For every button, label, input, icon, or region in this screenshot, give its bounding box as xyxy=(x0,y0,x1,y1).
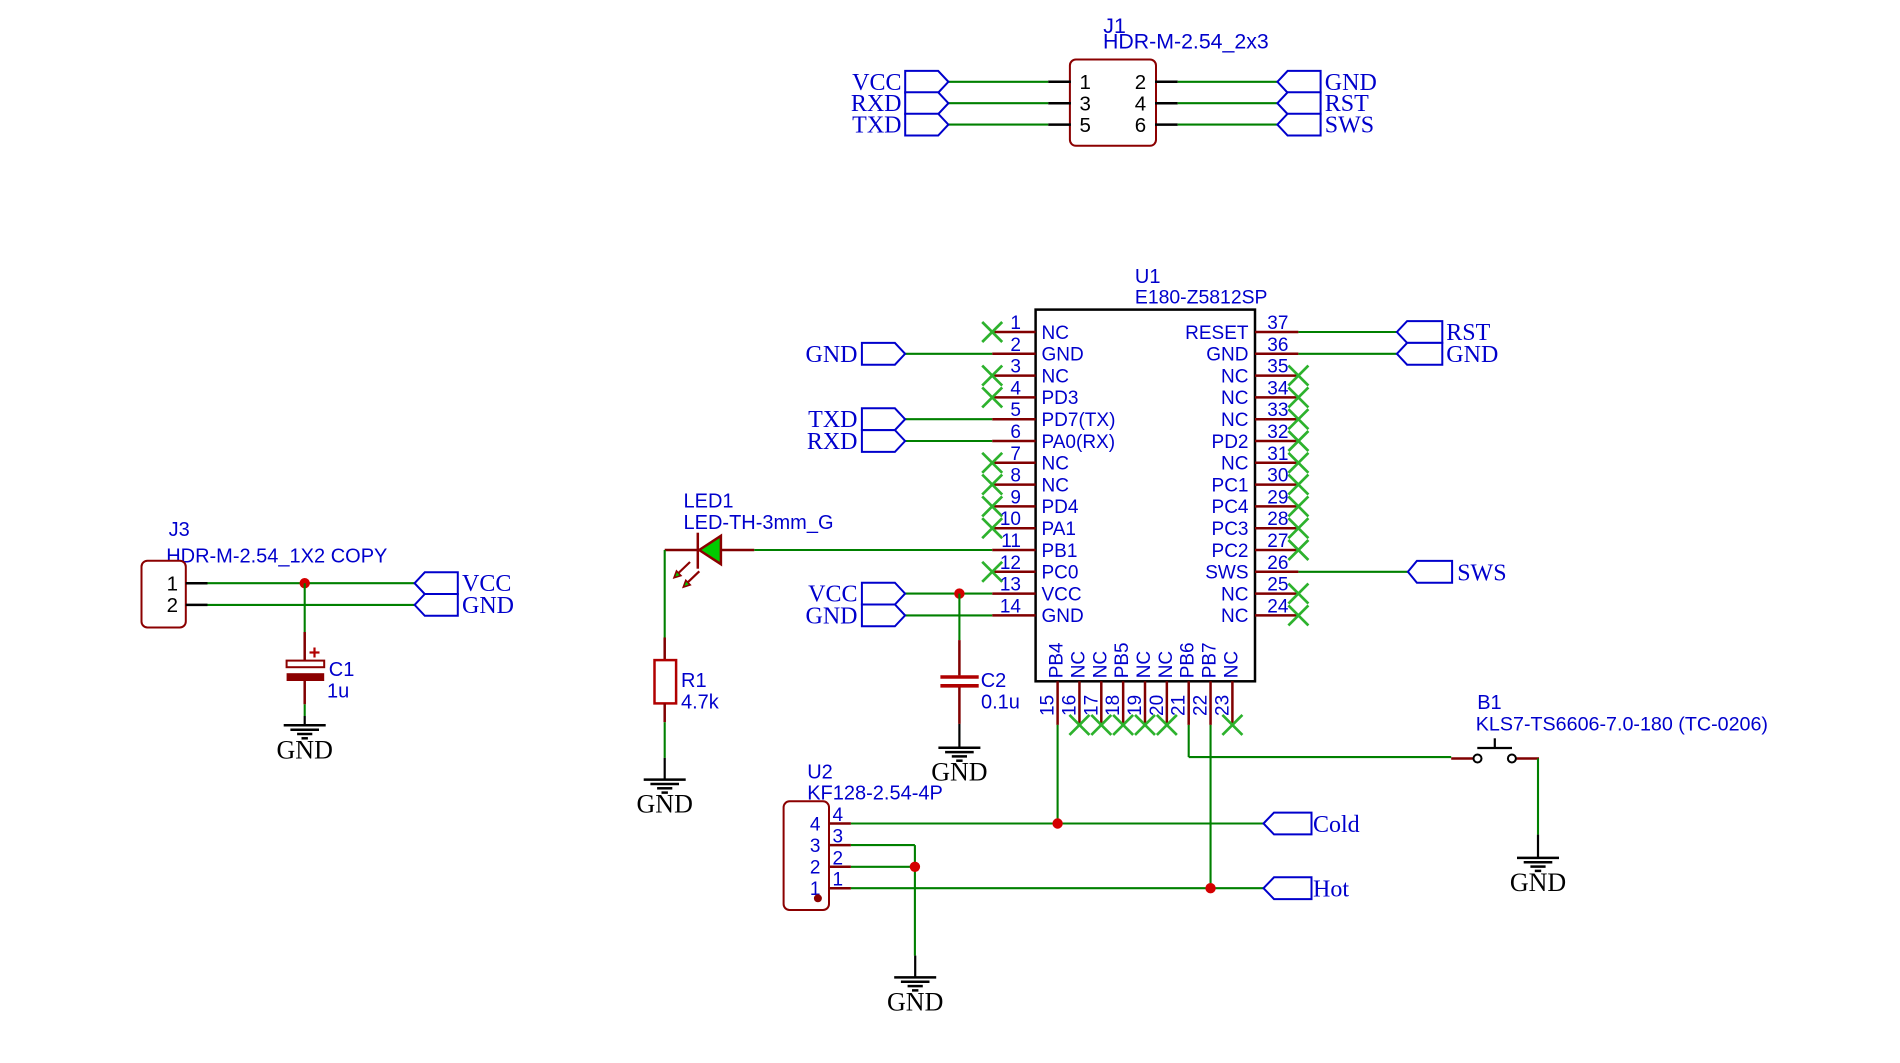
ground xyxy=(931,724,987,787)
ground xyxy=(1510,835,1566,897)
svg-text:U1: U1 xyxy=(1135,266,1161,288)
svg-text:PD2: PD2 xyxy=(1212,432,1249,453)
net flag RST xyxy=(1277,91,1369,117)
no-connect X on U1 pin 35 xyxy=(1288,366,1308,386)
wire U1 pin36 to GND flag xyxy=(1298,353,1397,355)
J1 pin 2 xyxy=(1135,71,1178,94)
net flag TXD xyxy=(808,407,905,433)
connector J3 body xyxy=(142,561,186,628)
U1 pin 34 NC xyxy=(1221,378,1298,409)
svg-text:NC: NC xyxy=(1221,584,1248,605)
J3 pin 2 xyxy=(167,594,208,617)
J1 pin 5 xyxy=(1048,114,1091,137)
svg-text:PC1: PC1 xyxy=(1212,475,1249,496)
svg-text:NC: NC xyxy=(1042,454,1069,475)
svg-text:NC: NC xyxy=(1090,651,1111,678)
wire U1 pin22 PB7 down to Hot net xyxy=(1210,725,1212,888)
U1 pin 24 NC xyxy=(1221,596,1298,627)
svg-text:23: 23 xyxy=(1212,695,1233,716)
wire RXD flag to U1 pin6 xyxy=(905,440,992,442)
svg-text:21: 21 xyxy=(1169,695,1190,716)
net flag RXD xyxy=(851,91,949,117)
svg-text:24: 24 xyxy=(1267,596,1289,617)
svg-text:NC: NC xyxy=(1221,366,1248,387)
U1 pin 35 NC xyxy=(1221,357,1298,388)
U1 pin 16 NC xyxy=(1059,651,1089,725)
net flag Cold xyxy=(1264,812,1360,838)
svg-text:1: 1 xyxy=(1080,71,1091,94)
svg-text:NC: NC xyxy=(1221,388,1248,409)
svg-text:SWS: SWS xyxy=(1325,113,1374,139)
svg-text:3: 3 xyxy=(1010,357,1021,378)
svg-text:RESET: RESET xyxy=(1185,323,1249,344)
svg-text:20: 20 xyxy=(1147,695,1168,716)
svg-text:NC: NC xyxy=(1221,651,1242,678)
J1 pin 1 xyxy=(1048,71,1091,94)
wire R1 to ground xyxy=(664,722,666,758)
svg-text:PB4: PB4 xyxy=(1047,642,1068,678)
wire TXD to J1 xyxy=(948,124,1048,126)
U1 pin 19 NC xyxy=(1125,651,1155,725)
wire U2 pin3 to ground net xyxy=(851,845,915,956)
svg-text:2: 2 xyxy=(810,858,821,879)
svg-text:34: 34 xyxy=(1267,378,1289,399)
svg-text:GND: GND xyxy=(806,603,858,629)
svg-text:1: 1 xyxy=(167,573,178,596)
no-connect X on U1 pin 33 xyxy=(1288,409,1308,429)
no-connect X on U1 pin 28 xyxy=(1288,518,1308,538)
svg-text:GND: GND xyxy=(1042,345,1084,366)
U1 pin 14 GND xyxy=(992,596,1084,627)
no-connect X on U1 pin 7 xyxy=(982,453,1002,473)
J1 pin 4 xyxy=(1135,93,1178,116)
wire J1 to RST xyxy=(1178,102,1278,104)
no-connect X on U1 pin 1 xyxy=(982,322,1002,342)
net flag RST xyxy=(1397,320,1491,346)
svg-text:35: 35 xyxy=(1267,357,1288,378)
no-connect X on U1 pin 19 xyxy=(1135,715,1155,735)
svg-text:29: 29 xyxy=(1267,487,1288,508)
svg-text:2: 2 xyxy=(1135,71,1146,94)
svg-text:GND: GND xyxy=(637,790,693,819)
U2 pin 1 xyxy=(810,870,851,900)
svg-text:E180-Z5812SP: E180-Z5812SP xyxy=(1135,287,1268,309)
svg-text:26: 26 xyxy=(1267,553,1288,574)
ground xyxy=(637,758,693,819)
U1 pin 29 PC4 xyxy=(1212,487,1299,518)
U1 pin 3 NC xyxy=(992,357,1069,388)
U1 pin 2 GND xyxy=(992,335,1084,366)
svg-text:GND: GND xyxy=(1042,606,1084,627)
svg-text:PC3: PC3 xyxy=(1212,519,1249,540)
capacitor C2 xyxy=(940,640,978,724)
svg-text:22: 22 xyxy=(1191,695,1212,716)
svg-text:KLS7-TS6606-7.0-180 (TC-0206): KLS7-TS6606-7.0-180 (TC-0206) xyxy=(1476,713,1768,735)
svg-text:GND: GND xyxy=(277,735,333,764)
U1 pin 20 NC xyxy=(1147,651,1177,725)
U2 pin 3 xyxy=(810,827,851,857)
svg-text:2: 2 xyxy=(1010,335,1021,356)
U1 pin 8 NC xyxy=(992,466,1069,497)
net flag VCC xyxy=(808,582,905,608)
svg-text:GND: GND xyxy=(1206,345,1248,366)
svg-text:2: 2 xyxy=(833,848,844,869)
wire B1 to ground xyxy=(1537,759,1539,835)
C2 value labels xyxy=(981,670,1020,714)
svg-text:6: 6 xyxy=(1010,422,1021,443)
no-connect X on U1 pin 20 xyxy=(1157,715,1177,735)
svg-text:1: 1 xyxy=(1010,313,1021,334)
svg-text:KF128-2.54-4P: KF128-2.54-4P xyxy=(807,783,943,805)
svg-text:27: 27 xyxy=(1267,531,1288,552)
svg-text:RXD: RXD xyxy=(807,429,858,455)
wire RXD to J1 xyxy=(948,102,1048,104)
U2 pin 2 xyxy=(810,848,851,878)
svg-text:LED1: LED1 xyxy=(684,491,734,513)
net flag RXD xyxy=(807,429,905,455)
svg-text:8: 8 xyxy=(1010,466,1021,487)
no-connect X on U1 pin 10 xyxy=(982,518,1002,538)
svg-text:2: 2 xyxy=(167,594,178,617)
svg-text:12: 12 xyxy=(1000,553,1021,574)
U1 pin 18 PB5 xyxy=(1103,642,1133,725)
wire U2 pin1 to Hot xyxy=(851,887,1264,889)
net flag GND xyxy=(806,603,906,629)
svg-text:25: 25 xyxy=(1267,575,1288,596)
U1 pin 22 PB7 xyxy=(1191,642,1221,725)
svg-text:PB7: PB7 xyxy=(1200,642,1221,678)
svg-text:GND: GND xyxy=(1510,868,1566,897)
U1 pin 25 NC xyxy=(1221,575,1298,606)
U1 pin 10 PA1 xyxy=(992,509,1076,540)
wire LED1 anode to U1 pin11 PB1 xyxy=(754,549,992,551)
no-connect X on U1 pin 12 xyxy=(982,562,1002,582)
svg-text:19: 19 xyxy=(1125,695,1146,716)
svg-text:HDR-M-2.54_2x3: HDR-M-2.54_2x3 xyxy=(1103,30,1269,54)
svg-text:TXD: TXD xyxy=(852,113,901,139)
U1 pin 23 NC xyxy=(1212,651,1242,725)
svg-text:5: 5 xyxy=(1010,400,1021,421)
net flag VCC xyxy=(415,571,512,597)
svg-text:4: 4 xyxy=(810,814,821,835)
U1 pin 26 SWS xyxy=(1205,553,1298,584)
wire VCC junction down to C2 xyxy=(958,594,960,641)
U1 pin 4 PD3 xyxy=(992,378,1078,409)
svg-text:4: 4 xyxy=(1010,378,1021,399)
net flag GND xyxy=(806,342,906,368)
svg-text:33: 33 xyxy=(1267,400,1288,421)
U1 pin 37 RESET xyxy=(1185,313,1298,344)
svg-text:NC: NC xyxy=(1042,323,1069,344)
net flag Hot xyxy=(1264,877,1350,903)
no-connect X on U1 pin 27 xyxy=(1288,540,1308,560)
svg-text:GND: GND xyxy=(1446,342,1498,368)
connector J3 reference label xyxy=(166,519,387,567)
svg-text:GND: GND xyxy=(887,987,943,1016)
no-connect X on U1 pin 17 xyxy=(1091,715,1111,735)
svg-text:4: 4 xyxy=(833,805,844,826)
svg-text:5: 5 xyxy=(1080,114,1091,137)
no-connect X on U1 pin 23 xyxy=(1222,715,1242,735)
svg-text:VCC: VCC xyxy=(1042,584,1082,605)
no-connect X on U1 pin 30 xyxy=(1288,475,1308,495)
J1 pin 6 xyxy=(1135,114,1178,137)
svg-text:7: 7 xyxy=(1010,444,1021,465)
svg-text:J3: J3 xyxy=(169,519,190,541)
svg-text:PD3: PD3 xyxy=(1042,388,1079,409)
U1 pin 9 PD4 xyxy=(992,487,1079,518)
U1 pin 36 GND xyxy=(1206,335,1298,366)
IC U1 body xyxy=(1036,310,1255,682)
junction node VCC/C2 xyxy=(954,588,964,598)
R1 value labels xyxy=(681,670,720,714)
svg-text:3: 3 xyxy=(810,836,821,857)
svg-text:1u: 1u xyxy=(327,681,349,703)
button B1 xyxy=(1451,738,1539,762)
svg-text:NC: NC xyxy=(1042,475,1069,496)
svg-text:14: 14 xyxy=(1000,596,1022,617)
svg-text:GND: GND xyxy=(462,593,514,619)
wire U2 pin4 to Cold xyxy=(851,822,1264,824)
no-connect X on U1 pin 25 xyxy=(1288,584,1308,604)
wire LED1 cathode down to R1 xyxy=(664,550,666,638)
net flag SWS xyxy=(1277,113,1374,139)
connector U2 body xyxy=(784,801,829,910)
no-connect X on U1 pin 32 xyxy=(1288,431,1308,451)
svg-text:B1: B1 xyxy=(1477,692,1501,714)
U1 pin 12 PC0 xyxy=(992,553,1078,584)
svg-text:PB5: PB5 xyxy=(1112,642,1133,678)
svg-text:PC4: PC4 xyxy=(1212,497,1249,518)
svg-text:31: 31 xyxy=(1267,444,1288,465)
wire U2 pin2 to ground net xyxy=(851,866,915,868)
wire VCC flag to U1 pin13 xyxy=(905,593,992,595)
U1 pin 33 NC xyxy=(1221,400,1298,431)
wire C1 to ground xyxy=(304,704,306,716)
svg-text:NC: NC xyxy=(1221,410,1248,431)
resistor R1 xyxy=(655,638,677,723)
svg-text:28: 28 xyxy=(1267,509,1288,530)
no-connect X on U1 pin 29 xyxy=(1288,496,1308,516)
svg-text:C2: C2 xyxy=(981,670,1007,692)
wire TXD flag to U1 pin5 xyxy=(905,418,992,420)
svg-text:15: 15 xyxy=(1038,695,1059,716)
svg-text:NC: NC xyxy=(1068,651,1089,678)
net flag GND xyxy=(1397,342,1498,368)
U1 pin 28 PC3 xyxy=(1212,509,1299,540)
U1 pin 5 PD7(TX) xyxy=(992,400,1115,431)
svg-text:PC2: PC2 xyxy=(1212,541,1249,562)
svg-text:PA0(RX): PA0(RX) xyxy=(1042,432,1116,453)
ground xyxy=(277,716,333,764)
U2 pin 4 xyxy=(810,805,851,835)
svg-text:R1: R1 xyxy=(681,670,707,692)
svg-text:NC: NC xyxy=(1134,651,1155,678)
svg-text:U2: U2 xyxy=(807,762,833,784)
U1 pin 15 PB4 xyxy=(1038,642,1068,725)
button B1 reference label xyxy=(1476,692,1768,736)
svg-text:4.7k: 4.7k xyxy=(681,692,720,714)
net flag SWS xyxy=(1408,560,1507,586)
svg-text:NC: NC xyxy=(1156,651,1177,678)
svg-text:GND: GND xyxy=(806,342,858,368)
wire U1 pin37 RESET to RST xyxy=(1298,331,1397,333)
U1 pin 21 PB6 xyxy=(1169,642,1199,725)
no-connect X on U1 pin 18 xyxy=(1113,715,1133,735)
svg-text:10: 10 xyxy=(1000,509,1021,530)
svg-text:0.1u: 0.1u xyxy=(981,692,1020,714)
U1 pin 7 NC xyxy=(992,444,1069,475)
no-connect X on U1 pin 4 xyxy=(982,387,1002,407)
J3 pin 1 xyxy=(167,573,208,596)
junction node PB7/Hot xyxy=(1205,883,1215,893)
svg-text:NC: NC xyxy=(1221,606,1248,627)
svg-text:4: 4 xyxy=(1135,93,1146,116)
wire J1 to GND xyxy=(1178,81,1278,83)
wire U1 pin21 PB6 to button B1 xyxy=(1189,725,1452,757)
connector J1 body xyxy=(1070,60,1156,146)
U1 pin 17 NC xyxy=(1081,651,1111,725)
svg-text:NC: NC xyxy=(1042,366,1069,387)
svg-text:11: 11 xyxy=(1001,531,1021,552)
U1 pin 30 PC1 xyxy=(1212,466,1299,497)
no-connect X on U1 pin 31 xyxy=(1288,453,1308,473)
svg-text:36: 36 xyxy=(1267,335,1288,356)
svg-text:6: 6 xyxy=(1135,114,1146,137)
svg-text:LED-TH-3mm_G: LED-TH-3mm_G xyxy=(684,512,834,534)
svg-text:37: 37 xyxy=(1267,313,1288,334)
wire GND flag to U1 pin14 xyxy=(905,614,992,616)
svg-text:PB6: PB6 xyxy=(1178,642,1199,678)
svg-text:HDR-M-2.54_1X2 COPY: HDR-M-2.54_1X2 COPY xyxy=(166,545,387,567)
net flag GND xyxy=(1277,70,1376,96)
wire VCC to J1 xyxy=(948,81,1048,83)
wire J3 pin1 to VCC xyxy=(208,582,415,584)
svg-text:9: 9 xyxy=(1010,487,1021,508)
wire GND flag to U1 pin2 xyxy=(905,353,992,355)
junction node U2 pin2/pin3 xyxy=(910,862,920,872)
LED1 emission arrows xyxy=(674,562,699,587)
U1 pin 13 VCC xyxy=(992,575,1081,606)
U1 pin 27 PC2 xyxy=(1212,531,1299,562)
svg-text:3: 3 xyxy=(833,827,844,848)
svg-text:13: 13 xyxy=(1000,575,1021,596)
svg-text:C1: C1 xyxy=(329,659,355,681)
svg-text:PB1: PB1 xyxy=(1042,541,1078,562)
wire junction to C1 xyxy=(304,583,306,632)
U1 pin 1 NC xyxy=(992,313,1069,344)
svg-text:PA1: PA1 xyxy=(1042,519,1077,540)
U1 pin 31 NC xyxy=(1221,444,1298,475)
capacitor C1 xyxy=(287,632,325,704)
svg-text:1: 1 xyxy=(833,870,844,891)
svg-text:PD7(TX): PD7(TX) xyxy=(1042,410,1116,431)
svg-text:PD4: PD4 xyxy=(1042,497,1079,518)
no-connect X on U1 pin 3 xyxy=(982,366,1002,386)
net flag VCC xyxy=(852,70,948,96)
IC U1 reference label xyxy=(1135,266,1268,309)
wire J1 to SWS xyxy=(1178,124,1278,126)
J1 pin 3 xyxy=(1048,93,1091,116)
wire U1 pin26 to SWS flag xyxy=(1298,571,1408,573)
connector J1 reference label xyxy=(1103,14,1269,53)
svg-text:Cold: Cold xyxy=(1313,812,1360,838)
svg-text:PC0: PC0 xyxy=(1042,563,1079,584)
no-connect X on U1 pin 24 xyxy=(1288,605,1308,625)
svg-text:NC: NC xyxy=(1221,454,1248,475)
net flag GND xyxy=(415,593,514,619)
C1 value labels xyxy=(327,659,354,703)
svg-text:16: 16 xyxy=(1059,695,1080,716)
svg-text:17: 17 xyxy=(1081,695,1102,716)
svg-text:3: 3 xyxy=(1080,93,1091,116)
no-connect X on U1 pin 34 xyxy=(1288,387,1308,407)
svg-text:30: 30 xyxy=(1267,466,1288,487)
LED LED1 xyxy=(665,533,755,569)
U2 pin1 polarity dot xyxy=(814,894,822,902)
no-connect X on U1 pin 8 xyxy=(982,475,1002,495)
no-connect X on U1 pin 9 xyxy=(982,496,1002,516)
no-connect X on U1 pin 16 xyxy=(1069,715,1089,735)
svg-text:32: 32 xyxy=(1267,422,1288,443)
svg-text:SWS: SWS xyxy=(1457,560,1506,586)
U1 pin 6 PA0(RX) xyxy=(992,422,1115,453)
junction node PB4/Cold xyxy=(1052,818,1062,828)
U1 pin 11 PB1 xyxy=(992,531,1077,562)
wire J3 pin2 to GND xyxy=(208,604,415,606)
junction node VCC/C1 xyxy=(300,578,310,588)
wire U1 pin15 PB4 down to Cold net xyxy=(1057,725,1059,824)
U1 pin 32 PD2 xyxy=(1212,422,1299,453)
svg-text:SWS: SWS xyxy=(1205,563,1248,584)
LED LED1 reference label xyxy=(684,491,834,534)
svg-text:18: 18 xyxy=(1103,695,1124,716)
connector U2 reference label xyxy=(807,762,943,805)
svg-text:Hot: Hot xyxy=(1313,877,1349,903)
ground xyxy=(887,956,943,1017)
net flag TXD xyxy=(852,113,948,139)
